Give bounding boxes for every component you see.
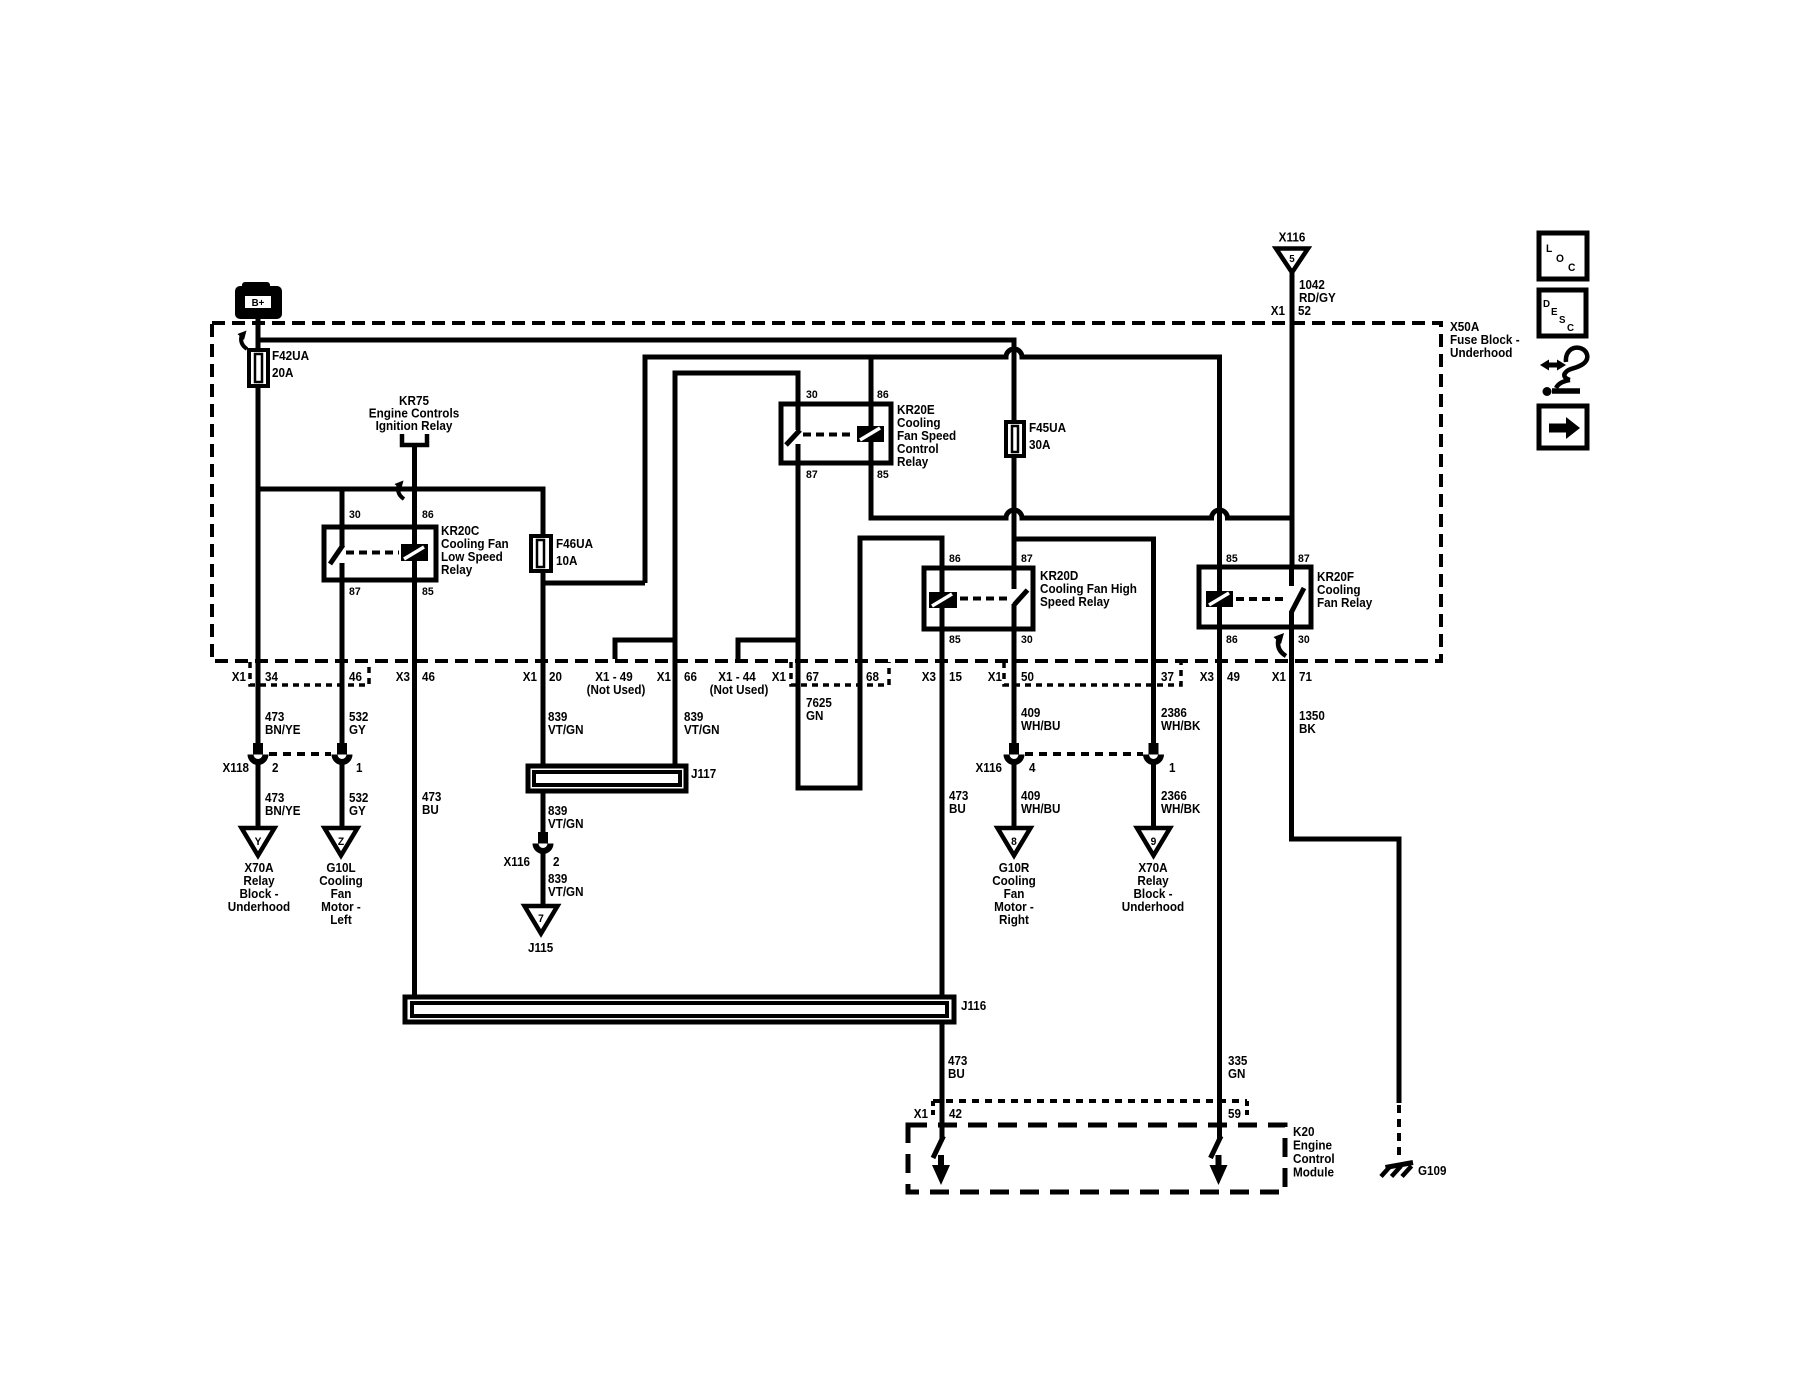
svg-text:9: 9 (1151, 836, 1157, 848)
B+ terminal (242, 282, 270, 294)
svg-text:Ignition Relay: Ignition Relay (376, 419, 453, 433)
svg-text:66: 66 (684, 670, 697, 684)
icon forward arrow (1539, 406, 1587, 448)
wire KR75 through KR20C coil to J116 (412, 445, 417, 997)
fuse F46UA (531, 536, 551, 571)
svg-text:F46UA: F46UA (556, 537, 593, 551)
svg-text:2: 2 (553, 855, 560, 869)
wire X116-1 to triangle 9 (1151, 765, 1156, 829)
inline connector X118-1 (332, 743, 353, 765)
svg-text:J117: J117 (691, 767, 716, 781)
svg-text:Module: Module (1293, 1165, 1334, 1179)
icon DESC (1539, 290, 1586, 336)
triangle X116-5 (1276, 249, 1308, 273)
svg-text:WH/BK: WH/BK (1161, 719, 1201, 733)
fuse F45UA (1006, 422, 1024, 456)
svg-text:Control: Control (1293, 1152, 1335, 1166)
svg-text:BU: BU (422, 803, 439, 817)
relay KR20D coil side wire (940, 568, 945, 629)
svg-text:Engine: Engine (1293, 1138, 1332, 1152)
wire X116-4 to triangle 8 (1012, 765, 1017, 829)
wire y539 branch to connector 37 and X116-1 (1014, 539, 1154, 743)
triangle Z (325, 828, 358, 856)
wire KR20D pin 85 down to J116 (940, 629, 945, 997)
wire jog into K20 module left (933, 1136, 944, 1158)
svg-text:Underhood: Underhood (228, 900, 290, 914)
svg-text:X116: X116 (1279, 230, 1306, 244)
svg-text:GN: GN (806, 709, 823, 723)
svg-text:WH/BU: WH/BU (1021, 802, 1060, 816)
wire KR20E pin 86 up to y356 (869, 355, 874, 405)
splice J117 (528, 766, 686, 791)
svg-text:1: 1 (356, 761, 363, 775)
wire y489 from F42UA branch to F46UA (256, 489, 544, 536)
relay KR20F box (1199, 567, 1311, 627)
svg-text:87: 87 (806, 469, 818, 481)
connector sub-box X1 34/46 (250, 662, 369, 685)
relay KR20D coil (929, 592, 957, 608)
svg-text:Relay: Relay (897, 455, 928, 469)
svg-text:F42UA: F42UA (272, 349, 309, 363)
wire KR20F pin 86 down to K20 pin 59 (1217, 627, 1222, 1140)
svg-text:Left: Left (330, 913, 351, 927)
svg-text:X1: X1 (523, 670, 537, 684)
svg-text:J116: J116 (961, 999, 986, 1013)
relay KR20E coil side wire (869, 404, 874, 463)
svg-text:15: 15 (949, 670, 962, 684)
relay KR20C coil (401, 544, 428, 561)
svg-text:Right: Right (999, 913, 1029, 927)
svg-text:20A: 20A (272, 366, 294, 380)
wire B+ feed vertical x258 (256, 317, 261, 743)
relay KR75 bracket (402, 434, 427, 445)
curly arrow at KR75 junction (398, 486, 404, 499)
inline connector X116-4 (1004, 743, 1025, 765)
relay KR20E blade (796, 404, 801, 430)
svg-text:85: 85 (877, 469, 889, 481)
curly arrow at B+ junction (241, 336, 247, 349)
stub X1-49 not used (615, 640, 675, 659)
svg-text:BU: BU (948, 1067, 965, 1081)
svg-text:Relay: Relay (441, 563, 472, 577)
relay KR20D box (924, 568, 1033, 629)
svg-text:86: 86 (422, 509, 434, 521)
svg-text:GY: GY (349, 804, 366, 818)
svg-text:85: 85 (949, 634, 961, 646)
svg-text:X3: X3 (922, 670, 936, 684)
wire branch to KR20C pin 30 (340, 489, 345, 527)
triangle 7 J115 (525, 906, 558, 934)
triangle Y (242, 828, 275, 856)
svg-text:X1: X1 (1271, 304, 1285, 318)
K20 connector dashed line X1 42/59 (933, 1099, 1247, 1103)
svg-text:BN/YE: BN/YE (265, 804, 301, 818)
svg-text:VT/GN: VT/GN (548, 817, 583, 831)
triangle 9 (1137, 828, 1170, 856)
svg-text:10A: 10A (556, 554, 578, 568)
svg-text:30: 30 (806, 389, 818, 401)
svg-text:42: 42 (949, 1107, 962, 1121)
svg-text:86: 86 (1226, 634, 1238, 646)
svg-text:BK: BK (1299, 722, 1316, 736)
svg-text:Underhood: Underhood (1450, 346, 1512, 360)
splice J116 (405, 997, 954, 1022)
svg-text:X1: X1 (988, 670, 1002, 684)
svg-text:86: 86 (949, 553, 961, 565)
svg-text:X3: X3 (1200, 670, 1214, 684)
svg-text:71: 71 (1299, 670, 1312, 684)
svg-text:S: S (1559, 315, 1566, 326)
svg-text:Underhood: Underhood (1122, 900, 1184, 914)
stub X1-44 not used (738, 640, 798, 659)
svg-text:L: L (1546, 243, 1553, 255)
wire KR20C 46 to Z triangle (340, 765, 345, 829)
curly arrow at KR20F pin 30 (1278, 639, 1286, 656)
X116 dashed pair link (1025, 752, 1143, 756)
triangle 8 (998, 828, 1031, 856)
svg-text:85: 85 (1226, 553, 1238, 565)
relay KR20E coil (857, 426, 884, 442)
svg-text:Y: Y (255, 836, 262, 848)
wire X116-2 to J115 (541, 854, 546, 907)
wire X116-5 down to KR20F pin 87 (1290, 272, 1295, 567)
svg-text:68: 68 (866, 670, 879, 684)
module arrow down left (938, 1155, 944, 1167)
svg-text:X3: X3 (396, 670, 410, 684)
svg-text:GN: GN (1228, 1067, 1245, 1081)
wire KR20E pin 87 loop 7625 GN to KR20D pin 86 (798, 463, 942, 788)
svg-text:VT/GN: VT/GN (548, 723, 583, 737)
inline connector X116-1 (1143, 743, 1164, 765)
svg-text:C: C (1568, 262, 1576, 274)
svg-text:46: 46 (422, 670, 435, 684)
inline connector X118-2 (248, 743, 269, 765)
wire J116 to K20 pin 42 (940, 1022, 945, 1140)
svg-text:X118: X118 (223, 761, 250, 775)
svg-text:(Not Used): (Not Used) (710, 683, 769, 697)
icon LOC (1539, 233, 1587, 279)
wire B+ horizontal y340 to F45UA corner (256, 340, 1015, 589)
svg-text:Speed Relay: Speed Relay (1040, 595, 1110, 609)
svg-text:VT/GN: VT/GN (548, 885, 583, 899)
svg-text:7: 7 (538, 913, 544, 925)
wire F46UA lower to J117 (541, 571, 546, 766)
relay KR20D blade (1012, 568, 1017, 589)
wire jog into K20 module right (1211, 1136, 1222, 1158)
wire X118-2 to Y triangle (256, 765, 261, 829)
svg-text:O: O (1556, 253, 1564, 265)
relay KR20F blade (1289, 567, 1294, 586)
relay KR20C box (324, 527, 436, 580)
svg-text:46: 46 (349, 670, 362, 684)
svg-text:30: 30 (1298, 634, 1310, 646)
svg-text:K20: K20 (1293, 1125, 1315, 1139)
wire y356 F46UA feed to KR20F pin 85 with hop at x1014 (645, 349, 1220, 583)
svg-text:49: 49 (1227, 670, 1240, 684)
svg-text:F45UA: F45UA (1029, 421, 1066, 435)
svg-text:X1: X1 (772, 670, 786, 684)
svg-text:87: 87 (349, 586, 361, 598)
svg-text:WH/BU: WH/BU (1021, 719, 1060, 733)
svg-text:Fan Relay: Fan Relay (1317, 596, 1373, 610)
ground G109 symbol (1381, 1163, 1413, 1177)
svg-text:59: 59 (1228, 1107, 1241, 1121)
connector sub-box X1 67/68 (791, 662, 889, 685)
wire y583 F46UA to x645 (543, 581, 645, 586)
svg-text:34: 34 (265, 670, 278, 684)
svg-text:X1: X1 (1272, 670, 1286, 684)
svg-text:85: 85 (422, 586, 434, 598)
relay KR20C blade (340, 527, 345, 546)
wire KR20E pin 85 along y518 to KR20F pin 87 with hops (871, 463, 1292, 518)
wire J117 to X116-2 (541, 791, 546, 832)
svg-text:2: 2 (272, 761, 279, 775)
relay KR20F coil (1206, 591, 1233, 607)
svg-text:BN/YE: BN/YE (265, 723, 301, 737)
svg-text:52: 52 (1298, 304, 1311, 318)
svg-text:BU: BU (949, 802, 966, 816)
svg-text:30: 30 (1021, 634, 1033, 646)
svg-text:(Not Used): (Not Used) (587, 683, 646, 697)
svg-text:X1: X1 (657, 670, 671, 684)
fuse block X50A dashed border (212, 323, 1441, 661)
relay KR20F coil side wire (1217, 567, 1222, 627)
svg-text:J115: J115 (528, 941, 553, 955)
svg-text:37: 37 (1161, 670, 1174, 684)
inline connector X116-2 (533, 832, 554, 854)
svg-text:X116: X116 (504, 855, 531, 869)
svg-text:87: 87 (1298, 553, 1310, 565)
X118 dashed pair link (269, 752, 331, 756)
svg-text:G109: G109 (1418, 1164, 1447, 1178)
svg-text:E: E (1551, 307, 1558, 318)
fuse F42UA (249, 350, 268, 386)
svg-text:8: 8 (1011, 836, 1017, 848)
svg-text:30A: 30A (1029, 438, 1051, 452)
svg-text:86: 86 (877, 389, 889, 401)
module arrow down right (1216, 1155, 1222, 1167)
svg-text:Z: Z (338, 836, 345, 848)
dashed drop to G109 (1397, 1105, 1401, 1160)
svg-text:C: C (1567, 323, 1575, 334)
svg-text:1: 1 (1169, 761, 1176, 775)
svg-text:50: 50 (1021, 670, 1034, 684)
svg-text:X1: X1 (232, 670, 246, 684)
svg-text:4: 4 (1029, 761, 1036, 775)
svg-text:GY: GY (349, 723, 366, 737)
wire J117 riser x675 to KR20E pin 30 via y373 (675, 373, 798, 766)
svg-text:B+: B+ (252, 298, 265, 309)
relay KR20E box (781, 404, 891, 463)
svg-text:X1: X1 (914, 1107, 928, 1121)
svg-text:5: 5 (1289, 254, 1295, 265)
svg-text:X116: X116 (976, 761, 1003, 775)
svg-text:VT/GN: VT/GN (684, 723, 719, 737)
svg-text:20: 20 (549, 670, 562, 684)
svg-text:D: D (1543, 299, 1550, 310)
svg-text:30: 30 (349, 509, 361, 521)
svg-text:WH/BK: WH/BK (1161, 802, 1201, 816)
svg-text:87: 87 (1021, 553, 1033, 565)
icon harness squiggle (1540, 348, 1587, 396)
connector sub-box X1 50/37 (1004, 662, 1181, 685)
wire KR20D pin 30 to X116-4 (1012, 629, 1017, 743)
K20 engine control module dashed box (908, 1125, 1285, 1192)
wire KR20C pin 87 to connector 46 (340, 580, 345, 743)
svg-text:67: 67 (806, 670, 819, 684)
wire KR20F pin 30 1350 BK to G109 (1292, 627, 1400, 1103)
